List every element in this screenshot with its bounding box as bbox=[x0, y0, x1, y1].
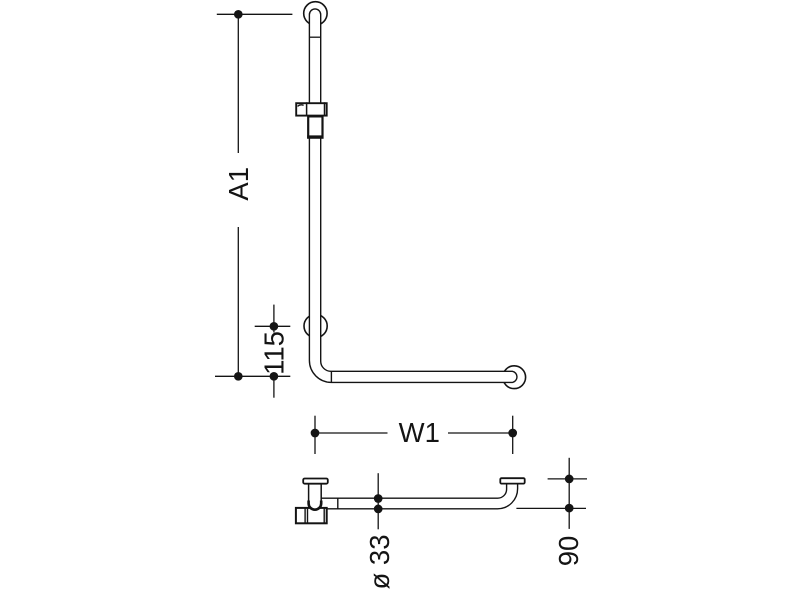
dot ø33 bottom bbox=[374, 505, 383, 514]
shower holder slider body bbox=[296, 102, 327, 116]
joint line on horizontal tube at bend bbox=[330, 371, 332, 382]
dimension W1: left tick bbox=[314, 416, 316, 454]
svg-text:W1: W1 bbox=[399, 417, 440, 448]
dimension: top horizontal line bbox=[217, 13, 293, 15]
shower holder lower block bbox=[307, 116, 323, 137]
dot W1 left bbox=[311, 429, 320, 438]
W1 line right segment bbox=[448, 432, 513, 434]
joint line on vertical tube bbox=[309, 36, 320, 38]
dot 90 bottom bbox=[565, 504, 574, 513]
dot 115 top bbox=[270, 322, 279, 331]
dot top bbox=[234, 10, 243, 19]
svg-text:A1: A1 bbox=[223, 167, 254, 201]
right wall flange circle bbox=[503, 366, 526, 389]
dot bottom of A1 bbox=[234, 372, 243, 381]
side view: horizontal tube with bend up to wall bbox=[312, 484, 518, 509]
top wall flange circle bbox=[304, 2, 327, 25]
dimension 90: top tick bbox=[548, 478, 587, 480]
svg-text:90: 90 bbox=[553, 536, 584, 567]
dimension line A1 (vertical, gapped for text) bbox=[237, 14, 239, 153]
dimension 90: bottom tick bbox=[516, 507, 586, 509]
side view: right wall plate bbox=[500, 478, 524, 483]
side view: left wall plate bbox=[303, 479, 328, 484]
side view: holder block bbox=[296, 508, 327, 523]
svg-text:115: 115 bbox=[258, 331, 289, 375]
knob arc detail bbox=[298, 105, 304, 107]
dot ø33 top bbox=[374, 494, 383, 503]
dimension 115: vertical line segments bbox=[273, 305, 275, 333]
dimension W1: right tick bbox=[512, 416, 514, 454]
dimension ø33: vertical line bbox=[377, 473, 379, 529]
side view: joint line on tube bbox=[337, 498, 339, 509]
dimension 115: top tick bbox=[255, 325, 291, 327]
dot W1 right bbox=[508, 429, 517, 438]
lower wall flange circle at bend bbox=[304, 314, 327, 337]
bottom horizontal extension line bbox=[215, 375, 290, 377]
W1 line left segment bbox=[315, 432, 388, 434]
svg-text:ø 33: ø 33 bbox=[364, 534, 395, 589]
dot 115 bottom bbox=[270, 372, 279, 381]
side view: stem edges bbox=[308, 484, 310, 501]
side view: vertical leg stem (white fill) bbox=[309, 484, 322, 510]
L-shaped grab bar body bbox=[309, 9, 517, 382]
dot 90 top bbox=[565, 475, 574, 484]
dimension 90: vertical line bbox=[568, 458, 570, 529]
side view: tube end cap (thick arc) bbox=[309, 501, 322, 510]
